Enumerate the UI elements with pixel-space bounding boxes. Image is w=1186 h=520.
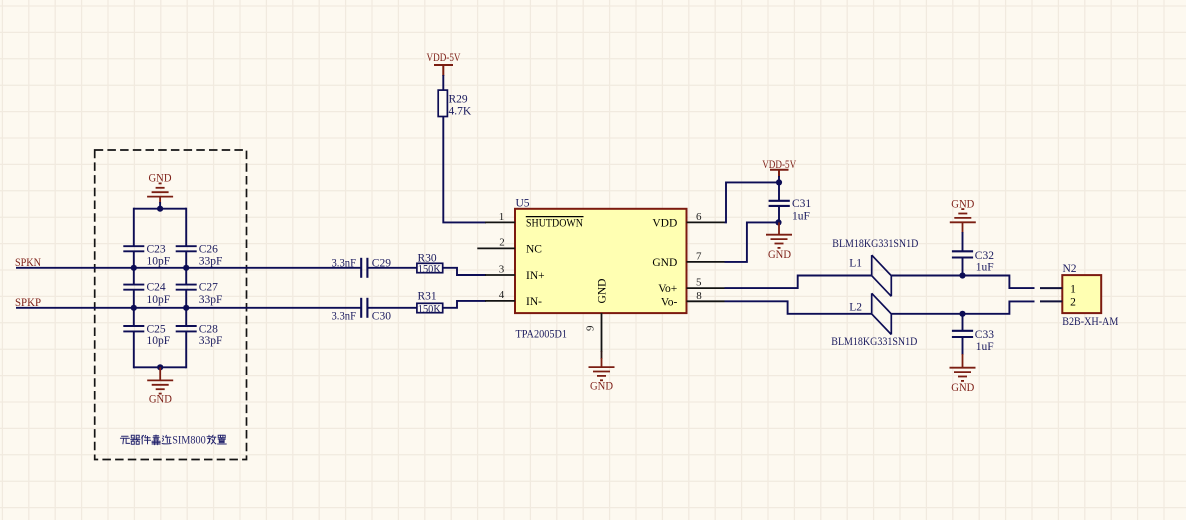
pin 4 IN- — [485, 289, 542, 308]
svg-text:7: 7 — [696, 250, 702, 262]
svg-text:C30: C30 — [372, 311, 391, 323]
wire pin5 to L1 — [725, 276, 872, 289]
node C24/SPKP — [131, 305, 137, 311]
wire R31 to pin4 — [443, 301, 486, 308]
GND power port (under IC) — [589, 358, 615, 393]
inductor L2 (ferrite bead) — [849, 293, 891, 334]
node C33 — [959, 311, 965, 317]
wire C31 to GND node — [778, 206, 780, 223]
pin 9 GND (bottom) — [585, 279, 609, 352]
pin 5 Vo+ — [658, 277, 724, 296]
capacitor C30 — [332, 298, 392, 323]
svg-text:Vo+: Vo+ — [658, 283, 677, 295]
wire pin6 up to VDD rail — [725, 182, 780, 222]
svg-text:4.7K: 4.7K — [449, 106, 472, 118]
svg-text:VDD: VDD — [652, 218, 677, 230]
wire top rail of cap bank — [134, 208, 186, 210]
svg-text:R31: R31 — [418, 291, 437, 303]
svg-text:L1: L1 — [849, 258, 862, 270]
svg-text:C25: C25 — [147, 323, 166, 335]
svg-text:TPA2005D1: TPA2005D1 — [516, 328, 568, 340]
svg-text:2: 2 — [1070, 297, 1076, 309]
node C27/SPKP — [183, 305, 189, 311]
svg-text:C26: C26 — [199, 243, 218, 255]
resistor R29 — [438, 90, 472, 118]
capacitor C32 — [952, 250, 994, 274]
svg-text:33pF: 33pF — [199, 294, 223, 306]
GND power port (bottom of cap bank) — [147, 367, 173, 405]
pin 2 NC — [477, 236, 542, 255]
svg-text:N2: N2 — [1063, 263, 1077, 275]
wire node to C33 — [962, 314, 964, 331]
svg-text:3.3nF: 3.3nF — [332, 311, 357, 323]
node C31/GND — [775, 219, 781, 225]
svg-text:1uF: 1uF — [976, 341, 994, 353]
capacitor C29 — [332, 257, 392, 278]
inductor L1 (ferrite bead) — [849, 255, 891, 296]
dashed guide box — [95, 150, 247, 460]
wire C33 to GND — [962, 337, 964, 355]
wire L2 to N2 pin2 — [891, 301, 1034, 313]
node C32 — [959, 272, 965, 278]
svg-text:U5: U5 — [516, 198, 530, 210]
svg-text:150K: 150K — [418, 264, 442, 276]
pin 6 VDD — [652, 211, 724, 230]
svg-text:SIM800: SIM800 — [172, 433, 206, 447]
svg-text:C32: C32 — [975, 250, 994, 262]
N2 pin 1 — [1040, 283, 1076, 295]
svg-text:2: 2 — [499, 236, 505, 248]
GND power port (under C33) — [950, 354, 976, 394]
wire C29 to R30 — [367, 267, 417, 269]
wire C30 to R31 — [367, 307, 417, 309]
svg-text:R29: R29 — [449, 93, 468, 105]
svg-text:C24: C24 — [147, 282, 166, 294]
wire bottom rail of cap bank — [134, 366, 186, 368]
capacitor C23 — [123, 243, 170, 267]
wire left column segments — [133, 208, 135, 369]
pin 8 Vo- — [661, 290, 725, 308]
node C23/SPKN — [131, 265, 137, 271]
GND power port (under C31) — [766, 222, 792, 261]
wire VDD to R29 — [442, 75, 444, 90]
wire pin8 to L2 — [725, 301, 872, 314]
svg-text:GND: GND — [652, 257, 677, 269]
wire right column segments — [185, 208, 187, 369]
svg-text:1: 1 — [499, 211, 505, 223]
GND power port (top of cap bank) — [147, 173, 173, 209]
wire SPKP — [16, 307, 361, 309]
svg-text:1uF: 1uF — [792, 211, 810, 223]
pin 1 SHUTDOWN — [485, 211, 584, 230]
wire pin7 up to GND node — [725, 222, 780, 262]
capacitor C28 — [176, 323, 223, 347]
svg-text:GND: GND — [951, 382, 974, 394]
svg-text:BLM18KG331SN1D: BLM18KG331SN1D — [832, 238, 918, 250]
svg-text:10pF: 10pF — [147, 256, 171, 268]
wire R30 to pin3 — [443, 268, 486, 275]
svg-text:C23: C23 — [147, 243, 166, 255]
svg-text:3: 3 — [499, 263, 505, 275]
svg-text:33pF: 33pF — [199, 335, 223, 347]
svg-text:R30: R30 — [418, 252, 437, 264]
node VDD/C31 — [776, 179, 782, 185]
N2 pin 2 — [1040, 297, 1076, 309]
svg-text:C33: C33 — [975, 329, 994, 341]
wire GND to C32 — [962, 232, 964, 251]
svg-text:150K: 150K — [418, 304, 442, 316]
svg-text:IN-: IN- — [526, 296, 542, 308]
wire R29 to pin1 — [443, 117, 486, 223]
note text (hand-drawn CJK + SIM800) — [120, 433, 226, 447]
svg-text:9: 9 — [585, 325, 597, 331]
wire L1 to N2 pin1 — [891, 276, 1034, 289]
capacitor C31 — [769, 198, 812, 223]
resistor R31 — [417, 291, 443, 316]
svg-text:NC: NC — [526, 244, 542, 256]
IC U5 body — [515, 209, 687, 313]
svg-text:C27: C27 — [199, 282, 218, 294]
svg-text:GND: GND — [768, 249, 791, 261]
svg-text:10pF: 10pF — [147, 294, 171, 306]
svg-text:GND: GND — [149, 394, 172, 406]
svg-text:VDD-5V: VDD-5V — [427, 52, 462, 64]
svg-text:Vo-: Vo- — [661, 296, 678, 308]
svg-text:8: 8 — [696, 290, 702, 302]
capacitor C24 — [123, 282, 170, 306]
pin 3 IN+ — [485, 263, 545, 282]
wire C32 to node — [962, 258, 964, 276]
svg-text:B2B-XH-AM: B2B-XH-AM — [1062, 316, 1118, 328]
svg-text:33pF: 33pF — [199, 256, 223, 268]
svg-text:GND: GND — [590, 381, 613, 393]
svg-text:6: 6 — [696, 211, 702, 223]
connector N2 body — [1062, 275, 1101, 313]
power port VDD-5V (top) — [427, 52, 462, 76]
svg-text:C28: C28 — [199, 323, 218, 335]
GND power port (above C32) — [950, 199, 976, 234]
pin 7 GND — [652, 250, 724, 269]
svg-text:C31: C31 — [792, 198, 811, 210]
wire pin9 to GND — [601, 351, 603, 359]
node C26/SPKN — [183, 265, 189, 271]
svg-text:BLM18KG331SN1D: BLM18KG331SN1D — [831, 336, 917, 348]
capacitor C27 — [176, 282, 223, 306]
wire SPKN — [16, 267, 361, 269]
node top — [157, 206, 163, 212]
wire VDD rail to C31 — [778, 176, 780, 201]
power port VDD-5V (right) — [762, 159, 797, 177]
svg-text:SHUTDOWN: SHUTDOWN — [526, 218, 584, 230]
svg-text:L2: L2 — [849, 302, 862, 314]
svg-text:1uF: 1uF — [976, 262, 994, 274]
svg-text:1: 1 — [1070, 283, 1076, 295]
capacitor C25 — [123, 323, 170, 347]
svg-text:4: 4 — [499, 289, 505, 301]
svg-text:3.3nF: 3.3nF — [332, 257, 357, 269]
svg-text:10pF: 10pF — [147, 335, 171, 347]
capacitor C26 — [176, 243, 223, 267]
capacitor C33 — [952, 329, 994, 353]
svg-text:IN+: IN+ — [526, 270, 545, 282]
node bottom — [157, 364, 163, 370]
resistor R30 — [417, 252, 443, 275]
svg-text:GND: GND — [596, 279, 608, 304]
svg-text:5: 5 — [696, 277, 702, 289]
